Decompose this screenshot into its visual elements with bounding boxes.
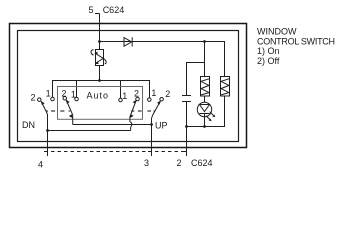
- pin 4 label: [38, 159, 43, 169]
- contact 2 circle (right outside): [160, 97, 164, 101]
- pin 5 label: [88, 5, 93, 15]
- svg-text:UP: UP: [155, 121, 168, 131]
- contact 2 circle (right inside): [136, 97, 140, 101]
- svg-text:1: 1: [151, 88, 156, 98]
- svg-text:2: 2: [165, 89, 170, 99]
- contact 1 circle (right outside): [148, 98, 152, 102]
- mechanical coupling dashed line (right group): [131, 110, 155, 112]
- svg-text:3: 3: [144, 158, 149, 168]
- wire contact feed bus: [53, 81, 150, 98]
- connector C624 label (top): [103, 5, 125, 15]
- svg-text:1: 1: [122, 91, 127, 101]
- contact 2 circle (left inside): [63, 97, 67, 101]
- connector C624 label (bottom): [191, 158, 213, 168]
- contact 2 label (right inside): [134, 88, 139, 98]
- wire to left resistor: [204, 42, 206, 77]
- capacitor C: [182, 96, 191, 102]
- wire capacitor tap: [187, 63, 205, 96]
- contact 1 label (left outside): [46, 89, 51, 99]
- connector C624 dashed line (bottom): [45, 151, 187, 153]
- Auto label: [87, 91, 110, 101]
- diode D1: [124, 37, 132, 46]
- svg-text:C624: C624: [103, 5, 125, 15]
- UP label: [155, 121, 168, 131]
- svg-text:1: 1: [46, 89, 51, 99]
- svg-text:4: 4: [38, 159, 43, 169]
- wire drop to inside-right contact 1: [120, 81, 122, 99]
- circuit breaker (thermal): [91, 50, 106, 66]
- wire breaker to bus: [99, 66, 101, 81]
- node junction pin5/diode branch: [98, 40, 101, 43]
- node junction pin5/contact bus: [98, 79, 101, 82]
- wire capacitor bottom to pin2: [186, 102, 188, 157]
- svg-text:5: 5: [88, 5, 93, 15]
- svg-text:Auto: Auto: [87, 91, 110, 101]
- switch lever UP (right outside): [152, 101, 161, 157]
- node junction LED bottom: [203, 125, 206, 128]
- wire lever-right to pin4 (line C): [48, 130, 131, 132]
- wire lever-left to pin3 (line B): [73, 124, 152, 126]
- pin 2 label: [177, 158, 182, 168]
- svg-text:2: 2: [31, 93, 36, 103]
- svg-text:C624: C624: [191, 158, 213, 168]
- DN label: [22, 120, 35, 130]
- wire drop to inside-left contact 1: [76, 81, 78, 98]
- Auto switch block box: [58, 87, 143, 120]
- wire LED/resistor bottom to pin2: [187, 96, 225, 127]
- svg-text:DN: DN: [22, 120, 35, 130]
- svg-text:1) On: 1) On: [257, 46, 280, 56]
- node junction pin3/line B: [150, 123, 153, 126]
- contact 2 label (right outside): [165, 89, 170, 99]
- node junction pin2 wire: [185, 125, 188, 128]
- pin 5 tick: [95, 13, 100, 15]
- pin 3 tick: [148, 151, 152, 153]
- contact 1 circle (left outside): [51, 97, 55, 101]
- svg-text:WINDOW: WINDOW: [257, 27, 297, 37]
- pin 3 label: [144, 158, 149, 168]
- svg-text:2: 2: [177, 158, 182, 168]
- inner enclosure box: [18, 31, 239, 142]
- resistor R2 (right): [221, 77, 230, 97]
- svg-text:CONTROL SWITCH: CONTROL SWITCH: [257, 36, 335, 46]
- pin 4 tick: [44, 151, 48, 153]
- switch lever DN (left outside): [41, 101, 48, 156]
- node junction pin4/line C: [46, 129, 49, 132]
- switch lever auto-left (inside): [66, 100, 73, 125]
- contact 2 label (left inside): [62, 88, 67, 98]
- mechanical coupling dashed line (left group): [46, 110, 70, 112]
- switch lever auto-right (inside): [130, 100, 137, 131]
- pin 2 tick: [183, 151, 187, 153]
- svg-text:2) Off: 2) Off: [257, 56, 280, 66]
- LED illumination lamp: [197, 96, 215, 127]
- contact 1 circle (left inside): [75, 97, 79, 101]
- node junction left resistor branch: [203, 40, 206, 43]
- contact 1 label (left inside): [71, 90, 76, 100]
- annotation text block: [257, 27, 335, 66]
- outer enclosure box: [10, 24, 247, 148]
- wire diode branch horizontal: [100, 42, 225, 77]
- contact 1 label (right inside): [122, 91, 127, 101]
- contact 2 label (left outside): [31, 93, 36, 103]
- contact 2 circle (left outside): [38, 98, 42, 102]
- contact 1 label (right outside): [151, 88, 156, 98]
- wire pin5 vertical: [99, 14, 101, 50]
- contact 1 circle (right inside): [119, 98, 123, 102]
- resistor R1 (left): [201, 77, 210, 97]
